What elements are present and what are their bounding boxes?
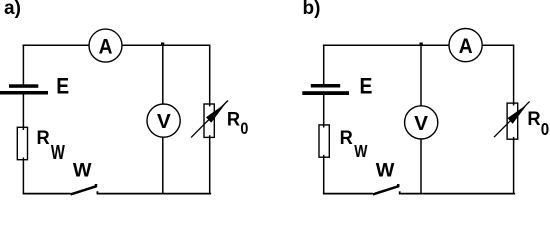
wire: circuit a right branch lower (R0 to bottom rail) [209,135,211,194]
resistor R0 circuit b: adjustment arrow head [508,104,528,124]
wire: circuit b bottom rail left of switch [323,193,373,195]
svg-text:W: W [354,141,368,161]
svg-text:b): b) [303,0,321,19]
battery E (cell) circuit a: long plate [0,91,48,95]
node: junction of voltmeter branch on circuit b top rail [420,43,423,46]
wire: circuit b left branch middle (battery to resistor RW) [323,95,325,128]
voltmeter V circuit a [147,104,180,137]
svg-text:W: W [51,141,65,164]
switch W circuit b: fixed contact [399,191,401,193]
wire: circuit a right branch upper (top rail to R0) [209,45,211,107]
svg-text:V: V [157,111,172,133]
svg-text:W: W [376,160,395,182]
svg-text:R: R [37,128,50,149]
wire: circuit b bottom rail right of switch [399,193,515,195]
resistor R0 circuit b: adjustment arrow shaft [494,101,530,137]
svg-text:0: 0 [541,119,550,139]
wire: circuit b top rail [323,44,514,46]
svg-text:A: A [99,35,113,58]
wire: circuit b right branch lower (R0 to bottom rail) [513,137,515,194]
wire: circuit b right branch upper (top rail to R0) [513,45,515,106]
voltmeter V circuit b [405,106,438,139]
switch W circuit a: fixed contact [96,191,98,193]
battery E (cell) circuit a: short plate [9,84,38,88]
battery E (cell) circuit b: short plate [311,84,340,88]
svg-text:A: A [459,35,473,58]
resistor R0 circuit a (body) [204,104,214,137]
svg-text:a): a) [4,0,21,19]
svg-text:0: 0 [240,120,248,138]
node: junction of voltmeter branch on circuit a top rail [161,43,164,46]
wire: circuit b voltmeter branch (vertical) [420,45,422,194]
ammeter A circuit b [449,28,482,61]
resistor RW circuit b (body) [319,125,329,157]
resistor RW circuit a (body) [17,127,27,159]
switch W circuit b: blade [373,184,398,194]
wire: circuit a left branch upper (top rail to battery) [22,45,24,85]
resistor R0 circuit a: adjustment arrow head [206,103,226,123]
svg-text:W: W [73,160,92,182]
wire: circuit a top rail [23,44,211,46]
svg-text:R: R [340,128,353,149]
wire: circuit a bottom rail left of switch [23,193,71,195]
wire: circuit a left branch middle (battery to resistor RW) [22,94,24,130]
ammeter A circuit a [89,29,122,62]
svg-text:R: R [527,109,540,130]
switch W circuit a: blade [71,184,96,194]
svg-text:R: R [227,110,240,131]
svg-text:E: E [56,74,69,99]
resistor R0 circuit a: adjustment arrow shaft [191,101,228,138]
battery E (cell) circuit b: long plate [302,91,349,95]
resistor R0 circuit b (body) [507,103,518,139]
svg-text:V: V [414,113,429,135]
wire: circuit a voltmeter branch (vertical) [162,45,164,194]
wire: circuit b left branch lower (resistor RW to bottom rail) [323,155,325,194]
svg-text:E: E [360,74,373,99]
wire: circuit a bottom rail right of switch [97,193,212,195]
wire: circuit a left branch lower (resistor RW to bottom rail) [22,157,24,194]
wire: circuit b left branch upper (top rail to battery) [323,45,325,85]
